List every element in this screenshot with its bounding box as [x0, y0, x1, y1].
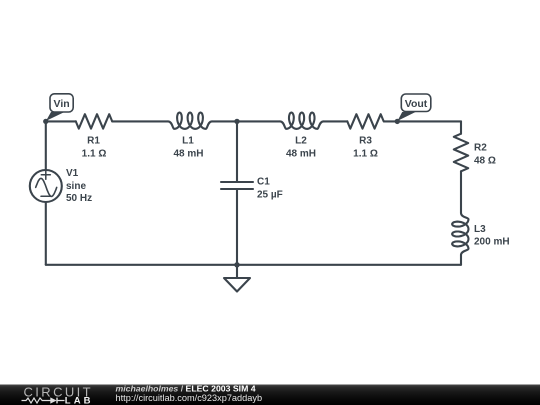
node Vout dot [395, 119, 400, 124]
inductor L1 [168, 113, 212, 129]
svg-text:L3: L3 [474, 224, 486, 235]
svg-text:1.1 Ω: 1.1 Ω [353, 149, 378, 160]
voltage source V1 circle [30, 170, 62, 202]
logo resistor+diode glyph [22, 398, 65, 404]
resistor R1 [76, 114, 112, 128]
junction dot C1/top [234, 119, 239, 124]
svg-text:Vout: Vout [405, 98, 428, 110]
V1 plus sign [41, 170, 50, 179]
inductor L3 [452, 213, 468, 255]
svg-text:48 mH: 48 mH [173, 149, 203, 160]
resistor R3 [347, 114, 383, 128]
svg-text:25 µF: 25 µF [257, 190, 283, 201]
svg-text:R2: R2 [474, 143, 487, 154]
resistor R2 [454, 134, 468, 172]
svg-text:sine: sine [66, 181, 86, 192]
node label Vout callout [398, 94, 431, 121]
wire top: R1 to L1 [112, 120, 168, 122]
wire top: Vin node to R1 [46, 120, 76, 122]
wire top: R3 to right corner [384, 120, 461, 122]
wire bottom: right corner to ground junction to left corner [46, 264, 461, 266]
wire top: L1 to L2 (through C1 junction) [212, 120, 280, 122]
junction dot ground [234, 262, 239, 267]
capacitor C1 plates [221, 181, 253, 183]
wire left: V1 bottom down to bottom-left corner [45, 202, 47, 265]
svg-text:Vin: Vin [54, 98, 70, 110]
V1 minus sign [41, 195, 51, 197]
node label Vin callout [46, 94, 73, 121]
svg-text:48 Ω: 48 Ω [474, 155, 496, 166]
wire right: corner to R2 [460, 121, 462, 133]
V1 sine wave [36, 178, 57, 196]
svg-text:V1: V1 [66, 168, 79, 179]
svg-text:R1: R1 [87, 136, 100, 147]
wire top: L2 to R3 [324, 120, 348, 122]
svg-text:L1: L1 [182, 136, 194, 147]
wire right: R2 to L3 [460, 171, 462, 213]
svg-text:C1: C1 [257, 177, 270, 188]
svg-text:http://circuitlab.com/c923xp7a: http://circuitlab.com/c923xp7addayb [116, 393, 263, 403]
svg-text:1.1 Ω: 1.1 Ω [82, 149, 107, 160]
svg-text:R3: R3 [359, 136, 372, 147]
inductor L2 [280, 113, 324, 129]
svg-text:50 Hz: 50 Hz [66, 193, 92, 204]
wire: C1 bottom lead to bottom wire [236, 189, 238, 265]
ground symbol [224, 278, 250, 292]
svg-text:L2: L2 [295, 136, 307, 147]
svg-text:48 mH: 48 mH [286, 149, 316, 160]
wire: ground stub [236, 265, 238, 278]
svg-text:LAB: LAB [65, 396, 94, 405]
wire left: Vin node down to V1 top [45, 121, 47, 170]
node Vin dot [43, 119, 48, 124]
wire right: L3 to bottom corner [460, 255, 462, 265]
svg-text:200 mH: 200 mH [474, 237, 510, 248]
wire: C1 top lead from junction [236, 121, 238, 182]
